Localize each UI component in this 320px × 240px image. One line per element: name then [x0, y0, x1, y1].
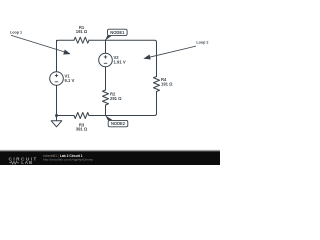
footer credit line	[43, 154, 83, 158]
svg-text:NODE2: NODE2	[111, 121, 126, 126]
label R3 value	[76, 122, 88, 131]
label V1 value	[65, 74, 75, 84]
node NODE2	[108, 120, 128, 126]
wire R2 to NODE2	[105, 105, 107, 116]
svg-text:191 Ω: 191 Ω	[76, 29, 88, 34]
label Loop 2	[196, 40, 208, 44]
svg-text:391 Ω: 391 Ω	[76, 126, 88, 131]
footer bar	[0, 150, 220, 166]
label R4 value	[161, 77, 173, 87]
ground	[51, 121, 62, 127]
wire left branch lower (V1 to ground junction)	[56, 85, 58, 115]
node NODE1 pointer	[105, 35, 113, 40]
svg-text:LAB: LAB	[21, 160, 33, 165]
svg-text:http://circuitlab.com/c4qghkp6: http://circuitlab.com/c4qghkp63mwtp	[43, 158, 93, 162]
wire left branch upper (top corner to V1)	[56, 40, 58, 71]
label R1 value	[76, 25, 88, 34]
wire R4 to bottom-right corner to NODE2	[106, 92, 157, 116]
junction dot ground node	[55, 114, 58, 117]
node NODE1	[108, 29, 128, 35]
node NODE2 pointer	[105, 115, 113, 120]
loop 1 arrow	[11, 35, 71, 54]
resistor R2	[103, 90, 109, 105]
ground stub	[56, 116, 58, 121]
wire middle branch NODE1 to V2	[105, 40, 107, 53]
wire NODE1 to top-right corner and down to R4	[106, 40, 157, 76]
voltage source V1	[50, 72, 64, 86]
svg-text:9.1 V: 9.1 V	[65, 78, 75, 83]
resistor R4	[154, 77, 160, 92]
resistor R3	[74, 113, 89, 119]
wire top-left corner to R1	[57, 40, 75, 48]
svg-text:291 Ω: 291 Ω	[110, 96, 122, 101]
svg-text:NODE1: NODE1	[110, 30, 125, 35]
wire NODE2 to R3	[89, 115, 106, 117]
voltage source V2	[99, 53, 113, 67]
label Loop 1	[10, 31, 22, 35]
label R2 value	[110, 91, 122, 101]
wire V2 to R2	[105, 67, 107, 90]
svg-text:1.91 V: 1.91 V	[114, 60, 126, 65]
svg-text:Loop 2: Loop 2	[196, 40, 208, 44]
label V2 value	[114, 55, 126, 64]
resistor R1	[74, 37, 89, 43]
svg-text:Loop 1: Loop 1	[10, 31, 22, 35]
footer logo CircuitLab	[9, 157, 38, 166]
loop 2 arrow	[143, 46, 196, 59]
footer url line	[43, 158, 93, 162]
svg-text:191 Ω: 191 Ω	[161, 81, 173, 86]
wire R1 to NODE1	[89, 39, 106, 41]
wire R3 to ground junction	[57, 115, 75, 117]
